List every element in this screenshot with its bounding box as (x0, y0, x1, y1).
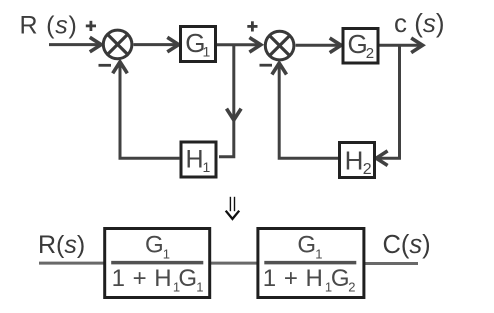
svg-text:1: 1 (315, 246, 322, 261)
svg-text:G: G (178, 265, 197, 292)
svg-text:1 + H: 1 + H (112, 265, 173, 292)
svg-text:G: G (331, 265, 350, 292)
svg-text:R (s): R (s) (20, 12, 78, 40)
svg-text:H: H (186, 146, 204, 174)
svg-text:2: 2 (348, 280, 355, 295)
svg-text:C(s): C(s) (383, 231, 431, 259)
svg-text:1: 1 (196, 280, 203, 295)
svg-text:1 + H: 1 + H (263, 265, 324, 292)
svg-text:1: 1 (163, 246, 170, 261)
svg-text:1: 1 (203, 44, 211, 60)
svg-text:H: H (345, 145, 364, 175)
svg-text:c (s): c (s) (394, 8, 445, 38)
svg-text:R(s): R(s) (38, 231, 85, 259)
svg-text:2: 2 (366, 45, 374, 62)
svg-text:G: G (297, 232, 316, 259)
svg-text:G: G (145, 232, 164, 259)
svg-text:1: 1 (203, 159, 211, 175)
svg-text:G: G (348, 29, 368, 59)
svg-text:2: 2 (363, 161, 372, 178)
